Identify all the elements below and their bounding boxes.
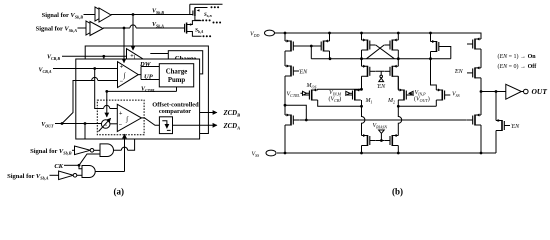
svg-text:Charge: Charge [166,69,188,76]
svg-text:VBIASN: VBIASN [373,123,388,130]
svg-text:EN: EN [299,70,309,76]
svg-text:VSS: VSS [252,152,260,159]
svg-text:+: + [120,65,124,71]
svg-text:VCTRL: VCTRL [141,87,156,94]
svg-text:VOUT: VOUT [41,122,54,129]
svg-text:VCTRL: VCTRL [287,92,301,99]
svg-text:VCB,B: VCB,B [47,55,60,62]
svg-text:+: + [119,111,123,117]
svg-text:VSS: VSS [452,92,460,99]
svg-text:DW: DW [139,61,152,68]
svg-text:Pump: Pump [168,77,186,84]
svg-text:M2: M2 [387,98,395,105]
svg-text:(b): (b) [392,187,403,197]
svg-text:+: + [105,122,108,127]
svg-text:(a): (a) [114,187,125,197]
svg-text:EN: EN [511,124,521,130]
svg-text:Sb,B: Sb,B [204,13,212,18]
svg-text:MOS: MOS [306,83,317,90]
svg-text:CK: CK [54,163,63,170]
svg-text:OUT: OUT [532,87,548,96]
svg-text:VDD: VDD [250,32,260,39]
svg-text:−: − [120,79,124,85]
svg-text:VSb,B: VSb,B [152,9,164,16]
svg-text:VSb,A: VSb,A [152,22,164,29]
svg-text:(EN = 1) → On: (EN = 1) → On [498,53,537,60]
svg-text:comparator: comparator [159,108,191,115]
svg-text:(EN = 0) → Off: (EN = 0) → Off [498,63,538,70]
svg-text:M1: M1 [365,98,373,105]
svg-text:EN: EN [454,69,464,75]
svg-text:−: − [119,122,123,128]
svg-text:VCB,A: VCB,A [38,67,51,74]
svg-text:EN: EN [377,84,387,90]
svg-text:UP: UP [144,74,154,81]
